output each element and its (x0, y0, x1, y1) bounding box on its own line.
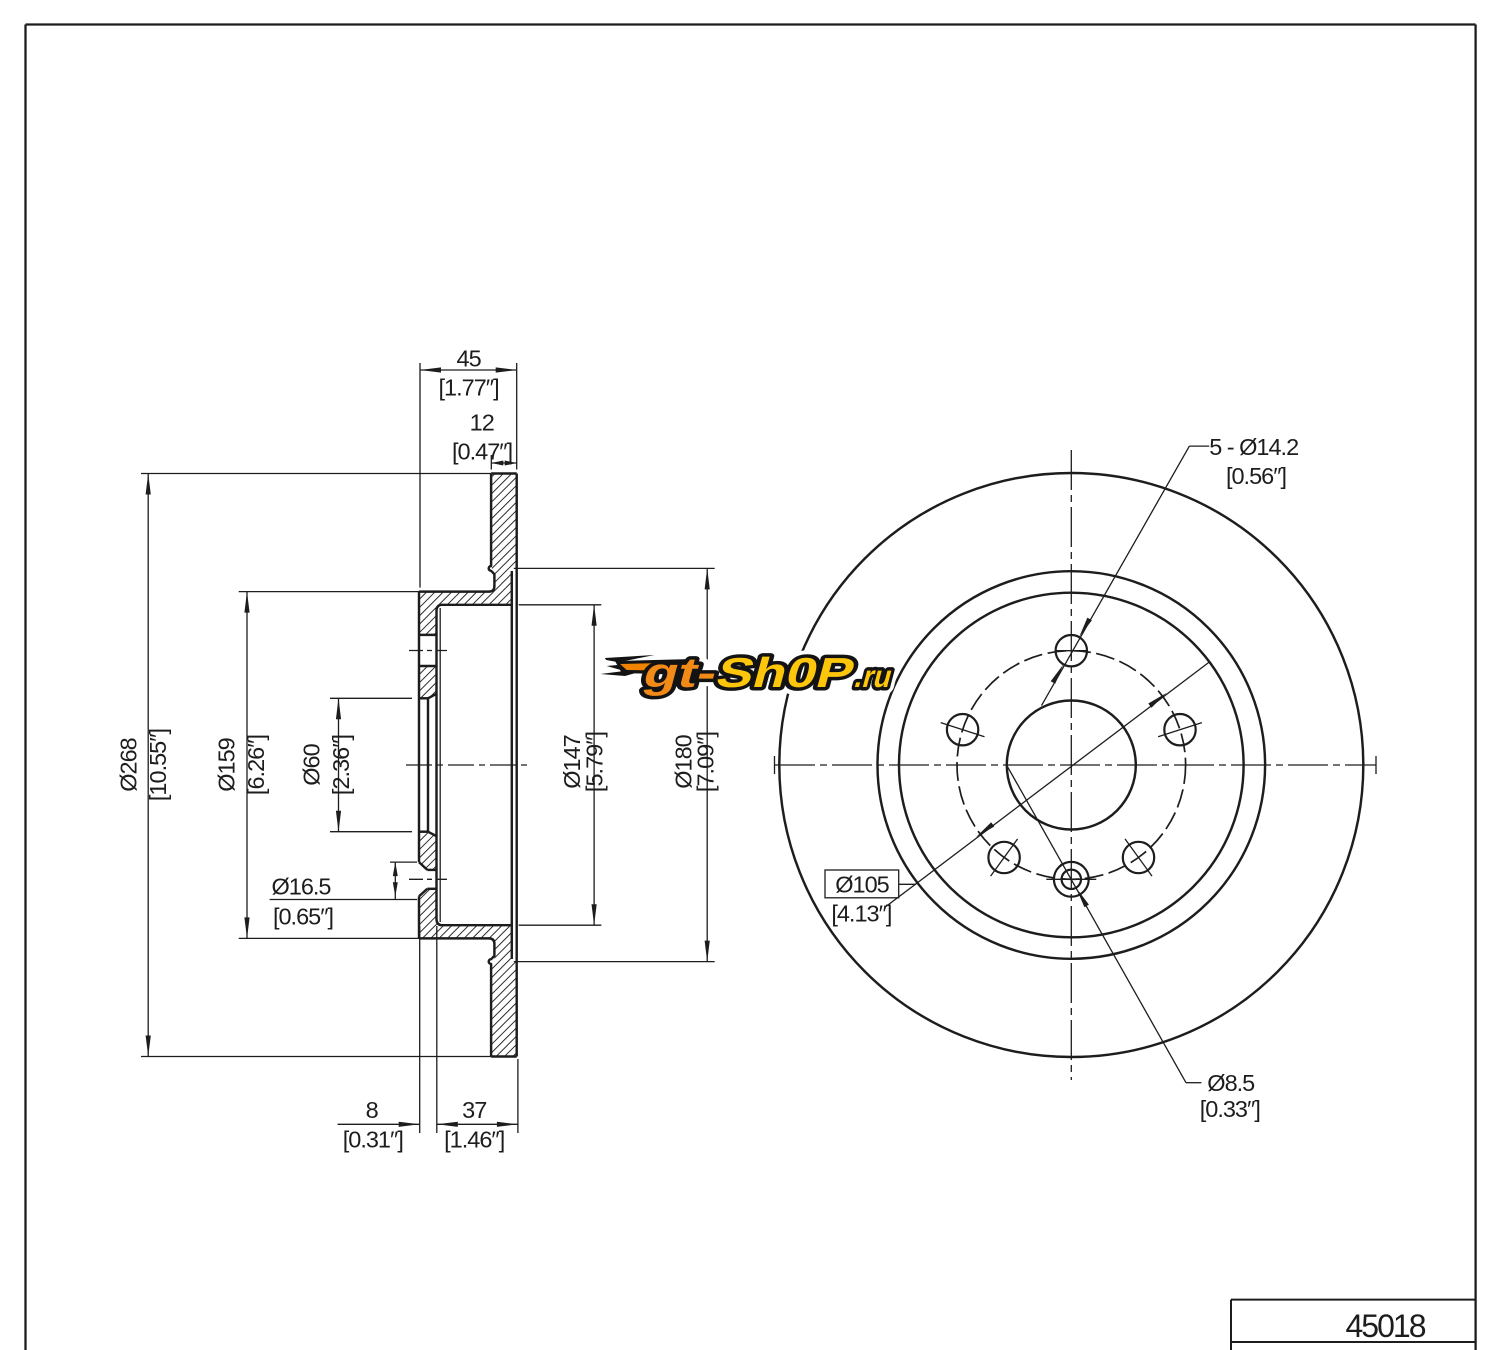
svg-text:37: 37 (462, 1097, 486, 1123)
svg-text:gt-: gt- (638, 650, 723, 697)
svg-text:8: 8 (366, 1097, 379, 1123)
svg-text:[0.31″]: [0.31″] (343, 1127, 403, 1153)
svg-text:[0.65″]: [0.65″] (273, 904, 333, 930)
svg-text:Ø105: Ø105 (835, 872, 889, 898)
svg-text:[1.46″]: [1.46″] (444, 1127, 504, 1153)
svg-text:Ø159: Ø159 (214, 738, 240, 792)
svg-text:5 - Ø14.2: 5 - Ø14.2 (1209, 434, 1298, 460)
svg-text:[7.09″]: [7.09″] (693, 732, 719, 792)
svg-text:[6.26″]: [6.26″] (243, 735, 269, 795)
svg-text:[1.77″]: [1.77″] (439, 375, 499, 401)
svg-text:[10.55″]: [10.55″] (145, 729, 171, 801)
svg-text:[5.79″]: [5.79″] (582, 732, 608, 792)
svg-text:45: 45 (457, 346, 482, 372)
svg-text:Ø8.5: Ø8.5 (1207, 1070, 1255, 1096)
svg-text:[0.33″]: [0.33″] (1200, 1096, 1260, 1122)
svg-text:[4.13″]: [4.13″] (831, 901, 891, 927)
svg-text:Ø268: Ø268 (116, 737, 142, 791)
svg-text:Ø16.5: Ø16.5 (271, 874, 331, 900)
svg-text:[0.56″]: [0.56″] (1226, 463, 1286, 489)
svg-text:45018: 45018 (1346, 1308, 1426, 1344)
svg-text:Ø60: Ø60 (299, 743, 325, 785)
svg-text:[2.36″]: [2.36″] (328, 735, 354, 795)
svg-text:Sh0P: Sh0P (711, 650, 860, 697)
svg-text:12: 12 (470, 410, 494, 436)
